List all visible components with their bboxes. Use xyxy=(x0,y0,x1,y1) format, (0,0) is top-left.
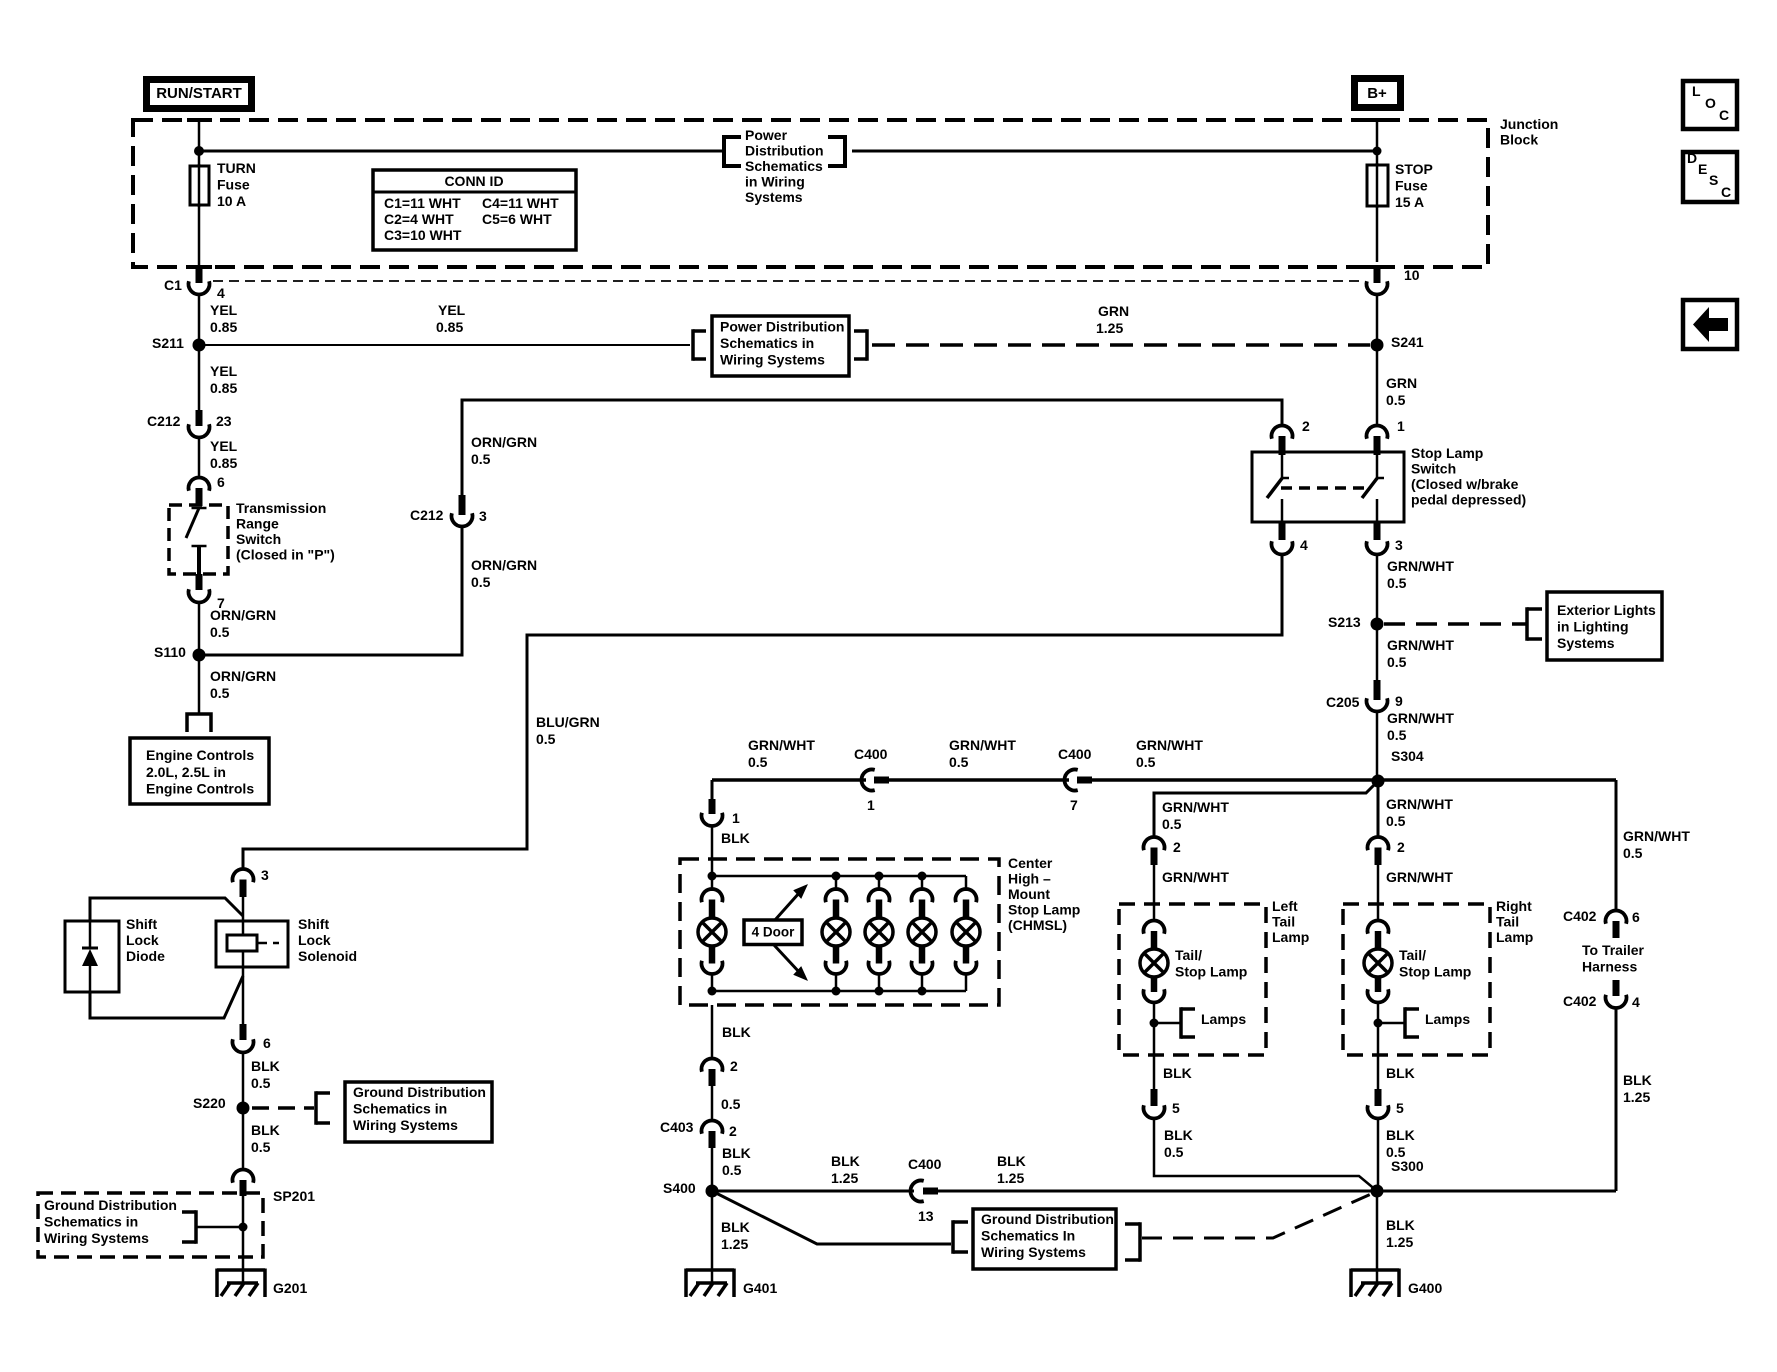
CHMSL bulb 3 xyxy=(878,876,881,891)
svg-text:High –: High – xyxy=(1008,871,1051,887)
splice pack SP201 connector xyxy=(232,1169,253,1182)
svg-text:Tail/: Tail/ xyxy=(1399,947,1426,963)
svg-text:6: 6 xyxy=(263,1035,271,1051)
svg-text:GRN/WHT: GRN/WHT xyxy=(1162,869,1229,885)
svg-text:BLK: BLK xyxy=(1163,1065,1192,1081)
wire CHMSL feed drop xyxy=(711,780,714,801)
svg-text:0.5: 0.5 xyxy=(471,451,491,467)
transmission range switch blade xyxy=(192,507,207,510)
svg-text:Stop Lamp: Stop Lamp xyxy=(1411,445,1483,461)
connector C402 pin 6 xyxy=(1606,910,1627,923)
wire BLK 1.25 S300 to G400 xyxy=(1376,1191,1379,1271)
wire ORN/GRN 0.5 pin 7 to S110 xyxy=(198,602,201,649)
svg-text:Wiring Systems: Wiring Systems xyxy=(720,352,825,368)
svg-text:9: 9 xyxy=(1395,693,1403,709)
svg-text:S213: S213 xyxy=(1328,614,1361,630)
splice S241 xyxy=(1371,339,1384,352)
svg-text:G201: G201 xyxy=(273,1280,307,1296)
svg-text:Tail: Tail xyxy=(1496,914,1519,930)
transmission range switch pin 6 xyxy=(188,477,209,490)
transmission range switch lower contact xyxy=(192,545,207,548)
CHMSL top bus xyxy=(712,875,966,878)
stop lamp switch pin 2 xyxy=(1272,425,1293,438)
svg-text:YEL: YEL xyxy=(438,302,466,318)
svg-text:BLK: BLK xyxy=(251,1058,280,1074)
svg-text:GRN/WHT: GRN/WHT xyxy=(1162,799,1229,815)
stop lamp switch right contact and blade xyxy=(1376,452,1379,477)
svg-text:BLK: BLK xyxy=(997,1153,1026,1169)
svg-text:(CHMSL): (CHMSL) xyxy=(1008,917,1067,933)
svg-text:TURN: TURN xyxy=(217,160,256,176)
svg-text:Schematics: Schematics xyxy=(745,158,823,174)
callout box Ground Distribution Schematics in Wiring Systems (S220) xyxy=(314,1091,318,1125)
wire solenoid to pin 6 xyxy=(242,967,245,1026)
svg-text:2: 2 xyxy=(730,1058,738,1074)
svg-text:0.5: 0.5 xyxy=(536,731,556,747)
svg-text:BLK: BLK xyxy=(831,1153,860,1169)
svg-text:Lock: Lock xyxy=(126,932,159,948)
svg-text:3: 3 xyxy=(1395,537,1403,553)
wire BLK 1.25 S400 to G401 xyxy=(711,1191,714,1271)
svg-text:Harness: Harness xyxy=(1582,959,1637,975)
wire pin 10 to S241 xyxy=(1376,294,1379,339)
svg-text:GRN: GRN xyxy=(1386,375,1417,391)
CHMSL bottom bus xyxy=(712,990,966,993)
svg-text:1.25: 1.25 xyxy=(1386,1234,1413,1250)
svg-text:0.5: 0.5 xyxy=(1623,845,1643,861)
svg-text:4: 4 xyxy=(1300,537,1308,553)
wire TURN fuse to connector C1 xyxy=(198,205,201,268)
svg-text:0.85: 0.85 xyxy=(210,380,237,396)
svg-text:3: 3 xyxy=(479,508,487,524)
svg-text:Transmission: Transmission xyxy=(236,500,326,516)
svg-text:1: 1 xyxy=(732,810,740,826)
svg-text:(Closed in "P"): (Closed in "P") xyxy=(236,547,335,563)
wire BLK 1.25 trailer to S300 xyxy=(1615,1008,1618,1191)
svg-text:in Wiring: in Wiring xyxy=(745,174,805,190)
svg-text:1: 1 xyxy=(867,797,875,813)
wire S110 branch to connector C212 pin 3 xyxy=(199,527,462,655)
stop lamp switch body xyxy=(1252,452,1404,522)
wire GRN/WHT 0.5 S304 to trailer rail xyxy=(1378,778,1616,782)
button LOC xyxy=(1683,81,1737,129)
svg-text:GRN/WHT: GRN/WHT xyxy=(1387,710,1454,726)
svg-text:GRN/WHT: GRN/WHT xyxy=(748,737,815,753)
svg-text:YEL: YEL xyxy=(210,438,238,454)
power label B+ xyxy=(1355,79,1401,108)
wire main feed across junction block xyxy=(199,150,722,153)
svg-text:GRN/WHT: GRN/WHT xyxy=(1386,869,1453,885)
wire BLK left tail lamp to pin 5 xyxy=(1153,1055,1156,1091)
wire RUN/START to fuse TURN xyxy=(198,120,201,166)
svg-text:Shift: Shift xyxy=(298,916,329,932)
svg-text:Range: Range xyxy=(236,516,279,532)
svg-text:Fuse: Fuse xyxy=(217,177,250,193)
svg-text:1.25: 1.25 xyxy=(1623,1089,1650,1105)
right tail lamp pin 2 xyxy=(1368,837,1389,850)
svg-text:Left: Left xyxy=(1272,898,1298,914)
svg-text:Lock: Lock xyxy=(298,932,331,948)
destination box Engine Controls 2.0L 2.5L xyxy=(130,738,269,804)
lamps branch (left tail lamp) xyxy=(1150,1019,1159,1028)
svg-text:Wiring Systems: Wiring Systems xyxy=(44,1230,149,1246)
svg-text:(Closed w/brake: (Closed w/brake xyxy=(1411,476,1519,492)
svg-text:GRN/WHT: GRN/WHT xyxy=(1136,737,1203,753)
svg-text:1.25: 1.25 xyxy=(831,1170,858,1186)
svg-text:Solenoid: Solenoid xyxy=(298,948,357,964)
connector C212 pin 23 xyxy=(196,410,203,426)
wire BLK 0.5 left tail to S300 xyxy=(1154,1118,1377,1191)
svg-text:4: 4 xyxy=(1632,994,1640,1010)
wire GRN/WHT into right tail lamp xyxy=(1377,865,1380,921)
power label RUN/START xyxy=(147,80,252,109)
connector C402 pin 4 xyxy=(1613,980,1620,996)
svg-text:C4=11 WHT: C4=11 WHT xyxy=(482,195,559,211)
wire GRN/WHT 0.5 stop lamp feed bus xyxy=(712,778,866,782)
splice S213 xyxy=(1371,618,1384,631)
svg-text:0.5: 0.5 xyxy=(949,754,969,770)
svg-text:C1: C1 xyxy=(164,277,182,293)
svg-text:GRN/WHT: GRN/WHT xyxy=(949,737,1016,753)
svg-text:2: 2 xyxy=(729,1123,737,1139)
callout box Ground Distribution Schematics In Wiring Systems (bottom) xyxy=(951,1220,955,1254)
svg-text:BLK: BLK xyxy=(722,1024,751,1040)
svg-text:SP201: SP201 xyxy=(273,1188,315,1204)
svg-text:in Lighting: in Lighting xyxy=(1557,619,1629,635)
splice S304 xyxy=(1372,775,1385,788)
svg-text:RUN/START: RUN/START xyxy=(156,85,242,102)
right tail lamp pin 5 xyxy=(1375,1089,1382,1106)
svg-text:Wiring Systems: Wiring Systems xyxy=(353,1117,458,1133)
svg-text:GRN/WHT: GRN/WHT xyxy=(1387,558,1454,574)
svg-text:Fuse: Fuse xyxy=(1395,178,1428,194)
svg-text:Shift: Shift xyxy=(126,916,157,932)
svg-text:Stop Lamp: Stop Lamp xyxy=(1399,964,1471,980)
callout box Exterior Lights in Lighting Systems xyxy=(1525,607,1529,641)
wire GRN/WHT 0.5 pin 3 to S213 xyxy=(1376,554,1379,618)
svg-text:C1=11 WHT: C1=11 WHT xyxy=(384,195,461,211)
shift lock solenoid coil xyxy=(242,921,245,935)
svg-text:Systems: Systems xyxy=(1557,635,1615,651)
svg-text:G400: G400 xyxy=(1408,1280,1442,1296)
wire YEL 0.85 S211 to callout xyxy=(199,344,690,346)
svg-text:1.25: 1.25 xyxy=(1096,320,1123,336)
wire BLK 0.5 C403 to S400 xyxy=(711,1148,714,1185)
button back arrow xyxy=(1683,300,1737,349)
svg-text:15 A: 15 A xyxy=(1395,194,1424,210)
svg-text:0.5: 0.5 xyxy=(1136,754,1156,770)
svg-text:Stop Lamp: Stop Lamp xyxy=(1175,964,1247,980)
svg-text:S: S xyxy=(1709,172,1718,188)
dashed wire GRN 1.25 to S241 xyxy=(872,343,1370,347)
svg-text:Lamp: Lamp xyxy=(1496,929,1533,945)
svg-text:0.5: 0.5 xyxy=(1387,654,1407,670)
transmission range switch pin 7 xyxy=(196,574,203,590)
svg-text:BLU/GRN: BLU/GRN xyxy=(536,714,600,730)
svg-text:Diode: Diode xyxy=(126,948,165,964)
svg-text:BLK: BLK xyxy=(1386,1065,1415,1081)
svg-text:YEL: YEL xyxy=(210,363,238,379)
callout box Power Distribution Schematics in Wiring Systems (middle) xyxy=(691,329,695,361)
svg-text:Switch: Switch xyxy=(1411,461,1456,477)
svg-text:O: O xyxy=(1705,95,1716,111)
svg-text:1: 1 xyxy=(1397,418,1405,434)
svg-text:BLK: BLK xyxy=(1386,1217,1415,1233)
fuse STOP 15 A xyxy=(1376,163,1379,208)
svg-text:Schematics in: Schematics in xyxy=(720,335,814,351)
center high-mount stop lamp CHMSL (dashed box) xyxy=(680,859,999,1005)
stop lamp switch pin 4 xyxy=(1279,522,1286,540)
stop lamp switch lower contacts xyxy=(1281,499,1284,522)
svg-text:Stop Lamp: Stop Lamp xyxy=(1008,902,1080,918)
shift lock diode box xyxy=(65,921,119,992)
wire GRN/WHT 0.5 to trailer harness xyxy=(1615,780,1618,912)
stop lamp switch left contact and blade xyxy=(1281,452,1284,477)
wire BLK 0.5 right tail to S300 xyxy=(1377,1118,1380,1185)
splice S300 xyxy=(1371,1185,1384,1198)
connector C205 pin 9 xyxy=(1374,680,1381,700)
svg-text:2: 2 xyxy=(1302,418,1310,434)
svg-text:5: 5 xyxy=(1396,1100,1404,1116)
splice pack SP201 (dashed box) xyxy=(38,1193,263,1257)
svg-text:23: 23 xyxy=(216,413,232,429)
connector pin 10 (junction block) xyxy=(1374,267,1381,283)
wire SP201 to G201 xyxy=(242,1196,245,1271)
connector C400 pin 13 (in-line) xyxy=(910,1181,923,1202)
label 4 Door with arrows xyxy=(744,920,802,945)
shift lock solenoid pin 3 xyxy=(232,869,253,882)
stop lamp switch pin 1 xyxy=(1367,425,1388,438)
svg-text:L: L xyxy=(1692,83,1701,99)
svg-text:0.5: 0.5 xyxy=(1386,813,1406,829)
junction node at B+ rail xyxy=(1373,147,1382,156)
ground G201 xyxy=(242,1270,245,1284)
wire stop lamp switch pin 4 to shift lock xyxy=(243,554,1282,870)
svg-text:Mount: Mount xyxy=(1008,886,1050,902)
wire GRN/WHT 0.5 S213 to C205 xyxy=(1376,624,1379,684)
svg-text:D: D xyxy=(1687,150,1697,166)
SP201 internal branch xyxy=(194,1210,198,1244)
svg-text:Ground Distribution: Ground Distribution xyxy=(353,1084,486,1100)
svg-text:C212: C212 xyxy=(410,507,444,523)
svg-text:0.5: 0.5 xyxy=(210,685,230,701)
svg-text:0.5: 0.5 xyxy=(721,1096,741,1112)
wire B+ to fuse STOP xyxy=(1376,120,1379,165)
wire GRN/WHT 0.5 C400 to S304 xyxy=(1092,778,1378,782)
svg-text:2: 2 xyxy=(1397,839,1405,855)
svg-text:ORN/GRN: ORN/GRN xyxy=(471,557,537,573)
svg-text:Systems: Systems xyxy=(745,189,803,205)
svg-text:0.5: 0.5 xyxy=(1387,575,1407,591)
svg-text:Schematics in: Schematics in xyxy=(353,1101,447,1117)
svg-text:Block: Block xyxy=(1500,132,1538,148)
wire GRN/WHT 0.5 S304 to right tail lamp xyxy=(1377,781,1380,838)
stop lamp switch pin 3 xyxy=(1374,522,1381,540)
svg-text:Power: Power xyxy=(745,127,788,143)
left tail lamp (dashed box) xyxy=(1119,904,1266,1055)
svg-text:0.5: 0.5 xyxy=(1386,392,1406,408)
svg-text:Distribution: Distribution xyxy=(745,143,824,159)
svg-text:13: 13 xyxy=(918,1208,934,1224)
CHMSL connector pin 2 xyxy=(702,1058,723,1071)
dashed wire S220 to ground distribution callout xyxy=(252,1106,314,1110)
svg-text:Tail/: Tail/ xyxy=(1175,947,1202,963)
svg-text:C400: C400 xyxy=(854,746,888,762)
svg-text:Ground Distribution: Ground Distribution xyxy=(44,1197,177,1213)
table CONN ID xyxy=(373,170,576,250)
lamps branch (right tail lamp) xyxy=(1374,1019,1383,1028)
wire STOP fuse to connector pin 10 xyxy=(1376,206,1379,262)
wire BLK 1.25 C400 to S300 xyxy=(938,1190,1371,1193)
left tail/stop lamp bulb xyxy=(1144,920,1165,933)
ground G401 xyxy=(711,1270,714,1284)
svg-text:C2=4 WHT: C2=4 WHT xyxy=(384,211,454,227)
svg-text:BLK: BLK xyxy=(722,1145,751,1161)
svg-text:ORN/GRN: ORN/GRN xyxy=(471,434,537,450)
svg-text:Lamp: Lamp xyxy=(1272,929,1309,945)
svg-text:GRN/WHT: GRN/WHT xyxy=(1387,637,1454,653)
svg-text:0.85: 0.85 xyxy=(210,455,237,471)
svg-text:C212: C212 xyxy=(147,413,181,429)
wire ORN/GRN 0.5 S110 to engine controls xyxy=(198,655,201,713)
shift lock solenoid pin 6 xyxy=(240,1024,247,1040)
wire ORN/GRN 0.5 C212 pin 3 to stop lamp switch pin 2 xyxy=(462,400,1282,497)
wire GRN/WHT 0.5 S304 branch to left tail lamp xyxy=(1154,781,1378,838)
svg-text:Lamps: Lamps xyxy=(1425,1011,1470,1027)
svg-text:4 Door: 4 Door xyxy=(752,925,796,940)
svg-text:ORN/GRN: ORN/GRN xyxy=(210,668,276,684)
wire GRN/WHT 0.5 C205 to S304 xyxy=(1376,711,1379,775)
connector C1 pin 4 xyxy=(196,267,203,283)
svg-text:BLK: BLK xyxy=(1386,1127,1415,1143)
svg-text:C: C xyxy=(1721,184,1731,200)
svg-text:Wiring Systems: Wiring Systems xyxy=(981,1244,1086,1260)
svg-text:S304: S304 xyxy=(1391,748,1424,764)
svg-text:GRN/WHT: GRN/WHT xyxy=(1623,828,1690,844)
junction node at left main feed xyxy=(194,146,204,156)
svg-text:C3=10 WHT: C3=10 WHT xyxy=(384,227,462,243)
svg-text:GRN/WHT: GRN/WHT xyxy=(1386,796,1453,812)
svg-text:1.25: 1.25 xyxy=(721,1236,748,1252)
svg-text:GRN: GRN xyxy=(1098,303,1129,319)
svg-text:Schematics in: Schematics in xyxy=(44,1214,138,1230)
shift lock diode upper wire xyxy=(90,898,243,921)
wire main feed to B+ rail xyxy=(852,150,1377,153)
wire BLK below CHMSL xyxy=(711,1005,714,1060)
svg-text:S110: S110 xyxy=(154,644,186,660)
left tail lamp pin 2 xyxy=(1144,837,1165,850)
ground G400 xyxy=(1376,1270,1379,1284)
svg-text:6: 6 xyxy=(217,474,225,490)
splice S400 xyxy=(706,1185,719,1198)
svg-text:0.5: 0.5 xyxy=(722,1162,742,1178)
svg-text:C400: C400 xyxy=(908,1156,942,1172)
wire 0.5 to C403 xyxy=(711,1086,714,1121)
svg-text:ORN/GRN: ORN/GRN xyxy=(210,607,276,623)
CHMSL connector pin 1 xyxy=(709,799,716,814)
dashed wire callout to S300 xyxy=(1142,1194,1371,1238)
svg-text:BLK: BLK xyxy=(1623,1072,1652,1088)
svg-text:1.25: 1.25 xyxy=(997,1170,1024,1186)
svg-text:0.5: 0.5 xyxy=(251,1139,271,1155)
svg-text:Power Distribution: Power Distribution xyxy=(720,319,844,335)
shift lock diode lower wire xyxy=(90,976,243,1018)
svg-text:4: 4 xyxy=(217,285,225,301)
svg-text:S300: S300 xyxy=(1391,1158,1424,1174)
splice S211 xyxy=(193,339,206,352)
wire S400 to ground distribution callout xyxy=(712,1191,951,1244)
svg-text:Exterior Lights: Exterior Lights xyxy=(1557,602,1656,618)
svg-text:0.5: 0.5 xyxy=(471,574,491,590)
svg-text:C402: C402 xyxy=(1563,993,1597,1009)
svg-text:G401: G401 xyxy=(743,1280,777,1296)
svg-text:STOP: STOP xyxy=(1395,161,1433,177)
dashed wire S213 to exterior lights callout xyxy=(1384,622,1526,626)
svg-text:Schematics In: Schematics In xyxy=(981,1228,1075,1244)
svg-text:6: 6 xyxy=(1632,909,1640,925)
svg-text:C5=6 WHT: C5=6 WHT xyxy=(482,211,552,227)
svg-text:C403: C403 xyxy=(660,1119,694,1135)
splice S110 xyxy=(193,649,206,662)
wire GRN 0.5 S241 to stop lamp switch pin 1 xyxy=(1376,345,1379,427)
fuse TURN 10 A xyxy=(198,164,201,207)
svg-text:BLK: BLK xyxy=(721,830,750,846)
terminal to engine controls xyxy=(187,714,211,732)
wire BLK 0.5 pin 6 to S220 xyxy=(242,1052,245,1102)
stop lamp switch actuator link (dashed) xyxy=(1281,486,1367,490)
svg-text:Engine Controls: Engine Controls xyxy=(146,747,254,763)
wire BLK 0.5 S220 to SP201 xyxy=(242,1108,245,1169)
svg-text:pedal depressed): pedal depressed) xyxy=(1411,492,1526,508)
svg-text:Lamps: Lamps xyxy=(1201,1011,1246,1027)
svg-text:C: C xyxy=(1719,107,1729,123)
svg-text:10: 10 xyxy=(1404,267,1420,283)
wire GRN/WHT into left tail lamp xyxy=(1153,865,1156,921)
svg-text:C402: C402 xyxy=(1563,908,1597,924)
connector C400 pin 7 (in-line) xyxy=(1064,770,1077,791)
svg-text:0.5: 0.5 xyxy=(1387,727,1407,743)
svg-text:S400: S400 xyxy=(663,1180,696,1196)
transmission range switch (dashed box) xyxy=(169,505,228,574)
svg-text:BLK: BLK xyxy=(1164,1127,1193,1143)
svg-text:0.85: 0.85 xyxy=(210,319,237,335)
connector C403 pin 2 xyxy=(702,1120,723,1133)
svg-text:To Trailer: To Trailer xyxy=(1582,942,1645,958)
svg-text:0.85: 0.85 xyxy=(436,319,463,335)
callout Power Distribution Schematics in Wiring Systems (top) xyxy=(722,135,726,168)
shift lock solenoid box xyxy=(216,921,288,967)
in-line connector face C1 (thin dashed) xyxy=(213,280,1364,282)
svg-text:3: 3 xyxy=(261,867,269,883)
CHMSL bulb 1 xyxy=(711,876,714,891)
svg-text:S241: S241 xyxy=(1391,334,1424,350)
svg-text:E: E xyxy=(1698,161,1707,177)
svg-text:BLK: BLK xyxy=(721,1219,750,1235)
wire BLK right tail lamp to pin 5 xyxy=(1377,1055,1380,1091)
svg-text:Tail: Tail xyxy=(1272,914,1295,930)
svg-text:Right: Right xyxy=(1496,898,1532,914)
svg-text:2.0L, 2.5L in: 2.0L, 2.5L in xyxy=(146,764,226,780)
connector C400 pin 1 (in-line) xyxy=(861,770,874,791)
right tail/stop lamp bulb xyxy=(1368,920,1389,933)
svg-text:10 A: 10 A xyxy=(217,193,246,209)
CHMSL bulb 2 xyxy=(835,876,838,891)
svg-text:Junction: Junction xyxy=(1500,116,1558,132)
right tail lamp (dashed box) xyxy=(1343,904,1490,1055)
svg-text:5: 5 xyxy=(1172,1100,1180,1116)
svg-text:S220: S220 xyxy=(193,1095,226,1111)
svg-text:BLK: BLK xyxy=(251,1122,280,1138)
